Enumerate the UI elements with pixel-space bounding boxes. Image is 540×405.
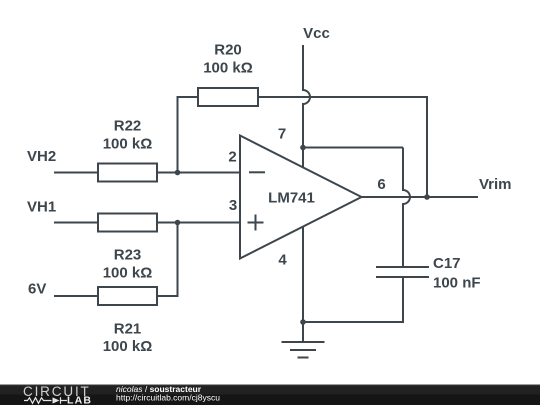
wire Vcc vertical with hop over feedback wire xyxy=(303,45,310,167)
svg-text:http://circuitlab.com/cj8yscu: http://circuitlab.com/cj8yscu xyxy=(116,393,220,403)
wire decoupling branch down with hop over output wire xyxy=(403,148,410,267)
op-amp non-inverting input plus sign xyxy=(248,215,264,231)
svg-text:6V: 6V xyxy=(28,281,46,298)
wire VH2 to R22 xyxy=(54,172,98,174)
svg-text:R23: R23 xyxy=(114,247,142,264)
svg-text:100 kΩ: 100 kΩ xyxy=(103,265,153,282)
wire R20 right to feedback corner and down to output xyxy=(258,97,427,197)
svg-text:2: 2 xyxy=(228,149,236,166)
wire output pin 6 to Vrim xyxy=(362,196,479,198)
resistor R20 xyxy=(198,88,258,106)
footer bar xyxy=(0,385,540,405)
svg-text:4: 4 xyxy=(278,252,287,269)
svg-text:LM741: LM741 xyxy=(268,190,315,207)
resistor R21 xyxy=(98,287,157,305)
svg-text:R21: R21 xyxy=(114,321,142,338)
svg-text:100 kΩ: 100 kΩ xyxy=(103,338,153,355)
wire VH1 to R23 xyxy=(54,222,98,224)
wire R23 to op-amp pin 3 xyxy=(157,222,240,224)
capacitor C17 xyxy=(376,267,429,277)
ground symbol xyxy=(282,342,325,358)
wire R21 up to non-inverting node xyxy=(157,223,178,297)
svg-text:R22: R22 xyxy=(114,118,142,135)
svg-text:LAB: LAB xyxy=(67,395,92,405)
svg-text:6: 6 xyxy=(377,176,385,193)
junction dot pin7 node xyxy=(300,145,306,151)
wire op-amp pin 4 down to ground xyxy=(302,227,304,343)
wire 6V to R21 xyxy=(54,295,98,297)
junction dot at non-inverting node xyxy=(175,220,181,226)
svg-text:100 kΩ: 100 kΩ xyxy=(103,136,153,153)
wire R22 to op-amp pin 2 xyxy=(157,172,240,174)
svg-text:Vcc: Vcc xyxy=(303,25,330,42)
svg-text:R20: R20 xyxy=(214,42,242,59)
svg-text:VH1: VH1 xyxy=(27,199,56,216)
junction dot at inverting node xyxy=(175,170,181,176)
svg-text:3: 3 xyxy=(229,197,237,214)
CircuitLab logo diode squiggle xyxy=(24,397,67,404)
svg-text:100 kΩ: 100 kΩ xyxy=(203,60,253,77)
junction dot at output node xyxy=(424,194,430,200)
svg-text:C17: C17 xyxy=(433,255,461,272)
op-amp inverting input minus sign xyxy=(249,171,265,173)
wire C17 bottom to ground rail xyxy=(303,278,403,322)
wire junction to R20 (feedback left leg) xyxy=(178,97,199,173)
op-amp U1 LM741 triangle xyxy=(240,136,362,259)
svg-text:7: 7 xyxy=(278,126,286,143)
wire pin7 junction to decoupling branch xyxy=(303,147,403,149)
resistor R23 xyxy=(98,214,157,232)
resistor R22 xyxy=(98,164,157,182)
svg-text:100 nF: 100 nF xyxy=(433,275,481,292)
footer attribution text xyxy=(116,384,220,403)
svg-text:Vrim: Vrim xyxy=(479,176,512,193)
svg-text:VH2: VH2 xyxy=(27,148,56,165)
junction dot at ground node xyxy=(300,319,306,325)
